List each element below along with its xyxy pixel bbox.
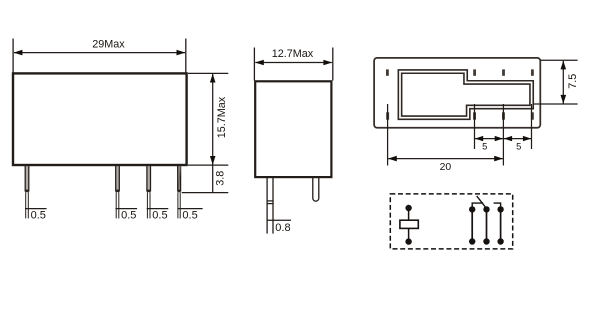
svg-text:3.8: 3.8 xyxy=(214,171,226,186)
svg-text:29Max: 29Max xyxy=(92,39,125,51)
svg-text:5: 5 xyxy=(516,141,521,152)
svg-text:0.8: 0.8 xyxy=(275,222,290,234)
svg-text:0.5: 0.5 xyxy=(31,210,46,222)
svg-text:20: 20 xyxy=(440,162,452,173)
svg-text:0.5: 0.5 xyxy=(182,210,197,222)
svg-text:7.5: 7.5 xyxy=(567,74,579,89)
svg-text:5: 5 xyxy=(482,141,487,152)
svg-text:12.7Max: 12.7Max xyxy=(272,48,314,60)
svg-text:15.7Max: 15.7Max xyxy=(216,96,228,138)
